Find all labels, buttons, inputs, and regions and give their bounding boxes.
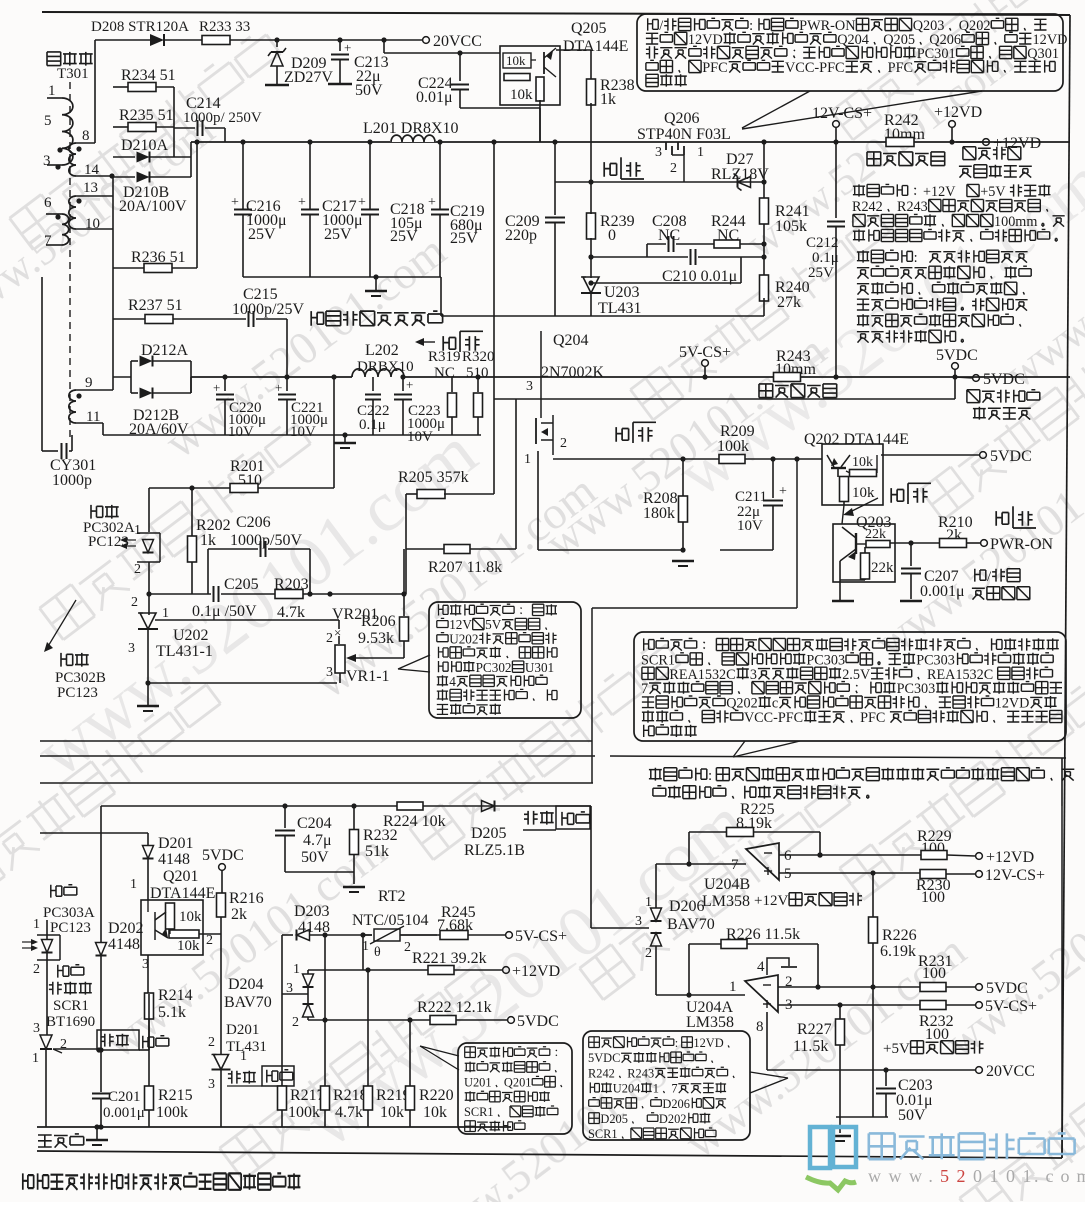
svg-text:+12VD: +12VD	[993, 135, 1041, 152]
svg-text:5VDC: 5VDC	[202, 847, 244, 864]
svg-text:20VCC: 20VCC	[986, 1063, 1035, 1080]
note repair tip 2	[857, 250, 869, 262]
wire box right	[1061, 758, 1063, 806]
svg-text:100k: 100k	[717, 438, 749, 455]
svg-text:7: 7	[731, 857, 739, 873]
wire R234/R235 bus	[173, 87, 175, 157]
wire D202 vertical top	[100, 806, 102, 942]
svg-text:PC123: PC123	[50, 920, 91, 936]
svg-text:100mm: 100mm	[994, 214, 1037, 230]
wire U204B out	[656, 863, 746, 865]
terminal 5VDC low	[508, 1017, 515, 1024]
svg-text:2k: 2k	[231, 906, 247, 923]
capacitor C222	[372, 377, 374, 391]
wire Q205 collector to R238	[556, 49, 591, 51]
wire C208 left leg	[646, 244, 648, 257]
svg-text:50V: 50V	[301, 849, 329, 866]
op-amp U204B	[746, 843, 779, 880]
capacitor CY301	[41, 277, 43, 451]
svg-text:1: 1	[33, 917, 40, 932]
svg-text:PFC: PFC	[888, 60, 913, 76]
svg-text:10V: 10V	[290, 424, 316, 440]
svg-text:VR1-1: VR1-1	[346, 668, 390, 685]
wire PC302 to U202	[148, 562, 150, 615]
svg-text:0.1μ: 0.1μ	[812, 250, 839, 266]
switch normal-protect C	[228, 1071, 241, 1084]
wire 5VDC feed down	[954, 377, 956, 399]
svg-text:2.5V: 2.5V	[842, 667, 871, 683]
svg-text:PC123: PC123	[88, 534, 129, 550]
svg-text:10V: 10V	[737, 518, 763, 534]
arrow to PC302B label	[47, 600, 76, 648]
label current sampling 2	[759, 384, 773, 398]
wire 5V rail	[190, 377, 192, 393]
capacitor C224	[459, 53, 461, 81]
wire U203 ref	[591, 282, 741, 284]
svg-text:2: 2	[292, 1015, 299, 1030]
wire pin11 down	[102, 423, 104, 435]
svg-text:6: 6	[44, 195, 52, 211]
capacitor C220	[224, 377, 226, 391]
wire pin8 to 20VCC	[766, 1012, 768, 1070]
diode D212B	[131, 392, 138, 394]
svg-text:25V: 25V	[324, 226, 352, 243]
wire top border	[42, 12, 1070, 15]
svg-text:D202: D202	[108, 920, 144, 937]
svg-text:www.: www.	[868, 1166, 940, 1186]
capacitor C204	[284, 806, 286, 828]
svg-text:+: +	[779, 484, 787, 499]
svg-text:10V: 10V	[228, 424, 254, 440]
svg-text:R205 357k: R205 357k	[398, 469, 469, 486]
terminal PWR-ON	[981, 540, 988, 547]
switch S4	[996, 511, 1008, 526]
wire pin2	[778, 986, 920, 988]
svg-text:25V: 25V	[450, 230, 478, 247]
capacitor C219	[437, 139, 442, 144]
svg-text:10k: 10k	[380, 1104, 404, 1121]
wire RT2 pin1 down	[362, 935, 364, 970]
svg-text:R224 10k: R224 10k	[383, 813, 446, 830]
terminal 12V-CS+ r230	[976, 871, 983, 878]
svg-text:R237 51: R237 51	[128, 297, 183, 314]
svg-text:PC303: PC303	[897, 681, 936, 697]
svg-text:R243: R243	[627, 1066, 654, 1080]
svg-text:NTC/05104: NTC/05104	[352, 912, 428, 929]
svg-text:R207 11.8k: R207 11.8k	[428, 559, 502, 576]
wire Q203 emitter ground	[839, 561, 841, 600]
svg-text:R242: R242	[588, 1066, 615, 1080]
terminal 5V-CS+ r232	[976, 1002, 983, 1009]
resistor R232 row	[920, 1001, 946, 1010]
svg-text:6.19k: 6.19k	[880, 943, 916, 960]
svg-text:12VD: 12VD	[693, 1036, 723, 1050]
svg-text:R227: R227	[797, 1021, 832, 1038]
svg-text:R239: R239	[600, 213, 635, 230]
svg-text:13: 13	[83, 180, 98, 196]
svg-text:×: ×	[334, 625, 341, 640]
wire pin8 to D208	[94, 40, 96, 143]
diode D210B	[113, 176, 135, 178]
svg-text:1: 1	[697, 145, 704, 160]
wire ground bus	[441, 315, 764, 317]
svg-text:3: 3	[43, 153, 51, 169]
svg-text:1000p: 1000p	[52, 472, 92, 489]
thyristor SCR1	[58, 965, 69, 978]
svg-text:1: 1	[293, 962, 300, 977]
svg-text:SCR1: SCR1	[53, 998, 89, 1014]
wire VR201 wiper	[352, 657, 404, 659]
svg-text:PFC: PFC	[860, 710, 885, 726]
svg-text:U204: U204	[613, 1082, 641, 1096]
svg-text:12V-CS+: 12V-CS+	[985, 867, 1045, 884]
wire section line C	[40, 782, 593, 784]
capacitor C223	[402, 377, 404, 391]
pin4 tie	[767, 958, 789, 975]
svg-text:5VDC: 5VDC	[990, 448, 1032, 465]
svg-text:+: +	[275, 380, 282, 395]
svg-text:100: 100	[921, 889, 945, 906]
svg-text:12VD: 12VD	[995, 696, 1030, 712]
wire bottom border	[37, 1151, 1062, 1158]
wire top of protection section	[101, 805, 591, 807]
svg-text:25V: 25V	[808, 265, 834, 281]
svg-text:C205: C205	[224, 576, 259, 593]
svg-text::: :	[914, 250, 918, 266]
svg-text:0.1μ /50V: 0.1μ /50V	[192, 603, 257, 620]
wire U202 ref	[155, 619, 330, 621]
svg-text:R214: R214	[158, 987, 193, 1004]
svg-text:+: +	[231, 195, 239, 210]
svg-text:3: 3	[635, 914, 642, 929]
svg-text:T301: T301	[57, 66, 89, 82]
resistor R232b	[353, 806, 355, 830]
svg-text:R218: R218	[333, 1087, 368, 1104]
capacitor C212	[835, 142, 837, 218]
wire secondary ground rail	[103, 434, 481, 436]
svg-text:R226: R226	[882, 927, 917, 944]
svg-text::: :	[749, 18, 753, 34]
svg-text:5V-CS+: 5V-CS+	[985, 998, 1037, 1015]
ground	[86, 1139, 108, 1141]
svg-text:7: 7	[671, 1082, 677, 1096]
svg-text:6: 6	[784, 848, 792, 864]
svg-text:D206: D206	[662, 1097, 690, 1111]
wire d201 feed	[40, 832, 148, 834]
svg-text:50V: 50V	[898, 1107, 926, 1124]
svg-text:2: 2	[134, 562, 141, 577]
svg-text:4.7k: 4.7k	[335, 1104, 363, 1121]
terminal 5VDC r231	[976, 984, 983, 991]
capacitor C216	[240, 139, 245, 144]
wire D205 to D206 pin3	[590, 806, 592, 928]
svg-text:100k: 100k	[288, 1104, 320, 1121]
svg-text::: :	[675, 1036, 678, 1050]
switch S2b	[616, 427, 628, 442]
svg-text:D205: D205	[600, 1112, 628, 1126]
svg-text:D204: D204	[228, 976, 264, 993]
svg-text:+5V: +5V	[883, 1041, 910, 1057]
svg-text:SCR1: SCR1	[588, 1127, 618, 1141]
svg-text:SCR1: SCR1	[464, 1105, 494, 1119]
svg-text:5VDC: 5VDC	[936, 347, 978, 364]
svg-text:1k: 1k	[200, 532, 216, 549]
svg-text:STP40N F03L: STP40N F03L	[637, 126, 731, 143]
svg-text:9.53k: 9.53k	[358, 630, 394, 647]
svg-text:D205: D205	[471, 825, 507, 842]
svg-text:51k: 51k	[365, 843, 389, 860]
svg-text:+12V: +12V	[923, 184, 956, 200]
svg-text:2: 2	[208, 1035, 215, 1050]
svg-text:20A/100V: 20A/100V	[119, 198, 187, 215]
resistor R241	[760, 198, 769, 224]
rectifier D210 bus right	[190, 142, 192, 177]
svg-text:Q202 DTA144E: Q202 DTA144E	[804, 431, 909, 448]
svg-text:5.1k: 5.1k	[158, 1004, 186, 1021]
svg-text:8: 8	[756, 1019, 764, 1035]
svg-text:2: 2	[206, 933, 213, 948]
svg-text:4.7k: 4.7k	[277, 604, 305, 621]
svg-text:D201: D201	[158, 835, 194, 852]
svg-text:R233 33: R233 33	[199, 19, 250, 35]
note protection circuit	[634, 632, 1066, 741]
wire section line B	[40, 755, 595, 757]
svg-text:TL431: TL431	[598, 300, 642, 317]
svg-text:3: 3	[208, 1077, 215, 1092]
svg-text:50V: 50V	[355, 82, 383, 99]
svg-text:10k: 10k	[510, 87, 533, 103]
svg-text:+: +	[406, 377, 413, 392]
svg-text:PFC: PFC	[702, 60, 727, 76]
svg-text:105k: 105k	[775, 218, 807, 235]
svg-text:100k: 100k	[156, 1104, 188, 1121]
svg-text:4148: 4148	[108, 936, 140, 953]
resistor R240	[760, 275, 769, 301]
ground	[344, 435, 346, 442]
wire secondary bus	[112, 176, 114, 390]
svg-text:1000p/25V: 1000p/25V	[232, 301, 304, 318]
note repair tip 3	[649, 768, 662, 781]
wire pin5	[779, 872, 920, 874]
note overcurrent protection	[583, 1031, 750, 1140]
wire switch net vertical	[591, 608, 593, 783]
svg-text:C201: C201	[108, 1089, 141, 1105]
svg-text:1: 1	[653, 1082, 659, 1096]
wire pin6	[779, 854, 921, 856]
svg-text:2: 2	[560, 436, 567, 451]
label current sampling	[867, 152, 881, 166]
terminal +12VD low	[503, 967, 510, 974]
svg-text:11.5k: 11.5k	[793, 1038, 828, 1055]
capacitor C201	[92, 1093, 110, 1095]
svg-text:D201: D201	[226, 1022, 259, 1038]
wire 20VCC branch to C224	[383, 40, 385, 53]
svg-text:2: 2	[670, 161, 677, 176]
ground	[672, 560, 694, 562]
svg-text:+12V: +12V	[754, 893, 788, 909]
svg-text:PWR-ON: PWR-ON	[990, 536, 1054, 553]
svg-text:3: 3	[326, 665, 333, 680]
wire Q204 out	[553, 458, 720, 460]
svg-text:12V: 12V	[449, 617, 472, 632]
svg-text:1: 1	[134, 523, 141, 538]
svg-text:L202: L202	[365, 342, 399, 359]
svg-text:+: +	[298, 195, 306, 210]
svg-text:C212: C212	[806, 235, 839, 251]
svg-text:LM358: LM358	[686, 1014, 734, 1031]
svg-text:1: 1	[729, 979, 737, 995]
svg-text:REA1532C: REA1532C	[927, 667, 993, 683]
wire main rectified rail	[191, 141, 1070, 143]
svg-text:4148: 4148	[158, 851, 190, 868]
svg-text:Q201: Q201	[163, 868, 199, 885]
svg-text:7: 7	[641, 681, 648, 697]
capacitor C217	[307, 139, 312, 144]
svg-text:R222 12.1k: R222 12.1k	[417, 999, 492, 1016]
svg-text:1000p/ 250V: 1000p/ 250V	[183, 110, 262, 126]
logo text	[869, 1133, 895, 1159]
svg-text:10k: 10k	[852, 485, 875, 501]
svg-text:10k: 10k	[177, 938, 200, 954]
svg-text:BAV70: BAV70	[667, 916, 715, 933]
svg-text:+12VD: +12VD	[986, 849, 1034, 866]
svg-text:L201 DR8X10: L201 DR8X10	[363, 120, 459, 137]
svg-text:2: 2	[326, 631, 333, 646]
svg-text:VCC-PFC: VCC-PFC	[785, 60, 845, 76]
svg-text:U204B: U204B	[704, 876, 750, 893]
svg-text:25V: 25V	[390, 228, 418, 245]
wire mid bus	[324, 935, 326, 1020]
wire 5V-CS sense	[282, 934, 293, 936]
svg-text:REA1532C: REA1532C	[669, 667, 735, 683]
wire rail to R241	[763, 142, 765, 182]
svg-text:25V: 25V	[248, 226, 276, 243]
svg-text:1: 1	[130, 877, 137, 892]
note overvoltage protection	[458, 1043, 572, 1134]
switch normal-protect B	[97, 1030, 139, 1050]
svg-text:+: +	[213, 380, 220, 395]
svg-text:R234 51: R234 51	[121, 67, 176, 84]
svg-text:22k: 22k	[871, 560, 894, 576]
title	[23, 1173, 301, 1189]
svg-text:0101: 0101	[973, 1166, 1039, 1186]
label PC302B	[61, 653, 73, 667]
svg-text:BT1690: BT1690	[46, 1014, 95, 1030]
wire SCR gate	[53, 1048, 99, 1050]
svg-text:R220: R220	[419, 1087, 454, 1104]
svg-text:0.01μ: 0.01μ	[416, 89, 453, 106]
wire R219 bus	[367, 970, 369, 1086]
switch S2 arrow	[421, 341, 435, 343]
svg-text:5V-CS+: 5V-CS+	[515, 928, 567, 945]
resistor R238	[587, 79, 596, 105]
svg-text:C211: C211	[735, 489, 767, 505]
switch normal-protect A	[524, 811, 538, 825]
svg-text:D210A: D210A	[121, 137, 169, 154]
wire D203 bus	[281, 935, 283, 1086]
wire filter ground rail	[243, 276, 441, 278]
wire section line A	[40, 740, 592, 742]
label on/off level shift	[975, 569, 986, 582]
svg-text:+5V: +5V	[980, 184, 1006, 200]
svg-text:ZD27V: ZD27V	[284, 69, 333, 86]
svg-text:3: 3	[655, 145, 662, 160]
svg-text:3: 3	[128, 641, 135, 656]
svg-text:1: 1	[162, 606, 169, 621]
svg-text:0: 0	[608, 227, 616, 244]
label secondary rectifier	[311, 311, 323, 326]
svg-text:+: +	[344, 40, 351, 55]
capacitor C210	[591, 256, 688, 258]
svg-text:Q301: Q301	[1027, 46, 1059, 62]
svg-text:R221 39.2k: R221 39.2k	[412, 950, 487, 967]
svg-text:2: 2	[645, 946, 652, 961]
wire C219 to ground bus	[440, 277, 442, 316]
svg-text:27k: 27k	[777, 294, 801, 311]
wire R220 bus	[409, 1020, 411, 1086]
wire Q205 emitter to rail	[539, 100, 541, 142]
wire right border	[1062, 15, 1070, 1158]
resistor R239	[587, 213, 596, 239]
svg-text:TL431-1: TL431-1	[156, 643, 213, 660]
svg-text:C206: C206	[236, 514, 271, 531]
svg-text:1: 1	[32, 1051, 39, 1066]
shunt regulator U203 TL431	[581, 277, 601, 293]
svg-text:BAV70: BAV70	[224, 994, 272, 1011]
svg-text:R206: R206	[361, 613, 396, 630]
resistor R230	[920, 870, 946, 879]
optocoupler PC303A	[51, 885, 62, 898]
svg-text:R243: R243	[897, 199, 928, 215]
wire ground rail bottom	[37, 1126, 511, 1128]
svg-text:2: 2	[131, 595, 138, 610]
svg-text:4: 4	[757, 959, 765, 975]
wire Q206 source	[555, 181, 764, 183]
svg-text:/: /	[659, 18, 663, 34]
svg-text:R235 51: R235 51	[119, 107, 174, 124]
svg-text:5VDC: 5VDC	[517, 1013, 559, 1030]
svg-text:5VDC: 5VDC	[588, 1051, 620, 1065]
svg-text:Q201: Q201	[504, 1076, 532, 1090]
wire c204 r232 gnd	[285, 871, 354, 873]
terminal 5V-CS+ low	[506, 932, 513, 939]
svg-text:VCC-PFC: VCC-PFC	[744, 710, 803, 726]
svg-text:+: +	[428, 195, 436, 210]
svg-text:10k: 10k	[423, 1104, 447, 1121]
svg-text:180k: 180k	[643, 505, 675, 522]
switch S1	[604, 162, 616, 177]
svg-text:4: 4	[449, 674, 456, 689]
svg-text:Q205: Q205	[883, 32, 915, 48]
svg-text:R215: R215	[158, 1087, 193, 1104]
svg-text:.com: .com	[1034, 1166, 1085, 1186]
svg-text:PC302B: PC302B	[55, 670, 106, 686]
optocoupler PC302A	[91, 505, 103, 519]
wire PC303 cathode	[46, 961, 48, 1035]
svg-text:R242: R242	[852, 199, 883, 215]
svg-text:5: 5	[44, 113, 52, 129]
svg-text:+12VD: +12VD	[512, 963, 560, 980]
note regulator control circuit	[429, 602, 581, 718]
svg-text:PC303A: PC303A	[43, 905, 95, 921]
svg-text:100: 100	[922, 965, 946, 982]
svg-text:5V-CS+: 5V-CS+	[679, 344, 731, 361]
svg-text:0.001μ: 0.001μ	[103, 1105, 145, 1121]
svg-text:D212A: D212A	[141, 342, 189, 359]
svg-text:DTA144E: DTA144E	[563, 38, 628, 55]
svg-text:U203: U203	[604, 284, 640, 301]
switch S2	[443, 336, 455, 351]
